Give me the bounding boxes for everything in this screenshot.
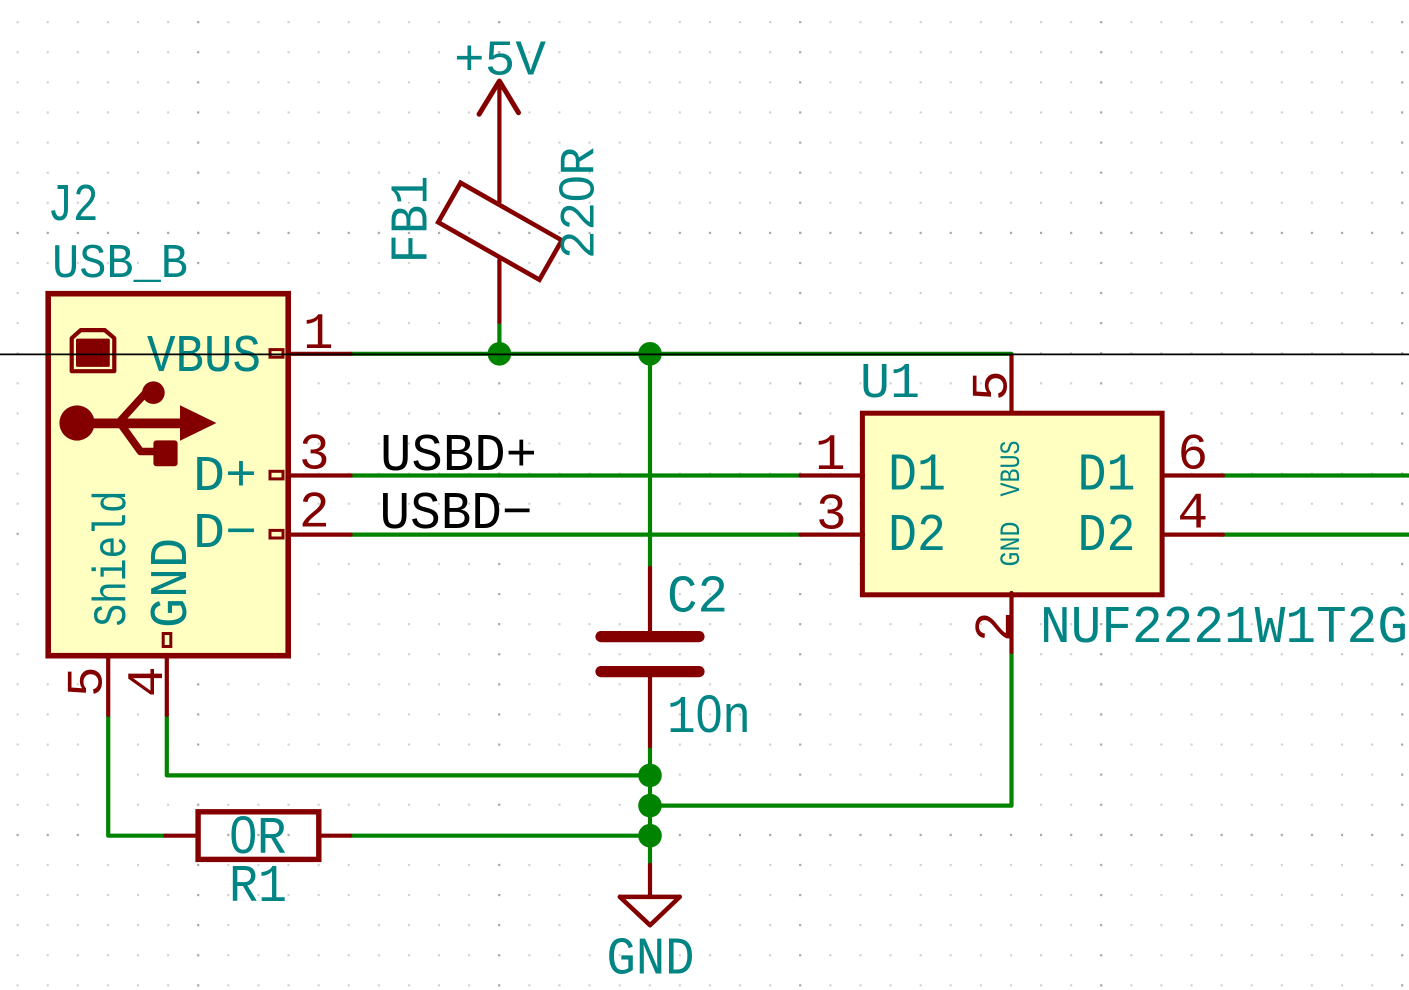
svg-text:1: 1 <box>303 307 334 364</box>
svg-text:VBUS: VBUS <box>997 441 1028 497</box>
svg-text:2: 2 <box>299 486 330 543</box>
svg-text:GND: GND <box>997 522 1028 567</box>
svg-text:USBD−: USBD− <box>380 484 533 544</box>
svg-text:C2: C2 <box>667 568 728 628</box>
svg-text:NUF2221W1T2G: NUF2221W1T2G <box>1040 598 1408 658</box>
svg-text:D−: D− <box>193 506 257 563</box>
svg-text:220R: 220R <box>551 147 609 259</box>
svg-text:GND: GND <box>607 930 695 990</box>
svg-text:D2: D2 <box>1078 506 1136 566</box>
svg-text:D+: D+ <box>193 449 257 506</box>
svg-text:D1: D1 <box>888 446 946 506</box>
svg-text:USBD+: USBD+ <box>380 426 537 486</box>
svg-text:6: 6 <box>1178 428 1209 485</box>
svg-text:VBUS: VBUS <box>147 327 261 387</box>
svg-text:2: 2 <box>969 611 1026 642</box>
svg-text:U1: U1 <box>860 356 920 413</box>
svg-text:3: 3 <box>816 487 847 544</box>
svg-text:10n: 10n <box>667 685 751 748</box>
svg-text:J2: J2 <box>48 176 99 236</box>
svg-text:USB_B: USB_B <box>52 238 188 292</box>
svg-text:1: 1 <box>815 428 846 485</box>
svg-text:FB1: FB1 <box>383 176 443 264</box>
svg-text:5: 5 <box>966 370 1023 401</box>
svg-text:3: 3 <box>299 427 330 484</box>
svg-text:5: 5 <box>61 666 118 697</box>
svg-text:R1: R1 <box>229 857 287 917</box>
svg-text:4: 4 <box>1178 487 1209 544</box>
svg-text:D1: D1 <box>1078 446 1136 506</box>
svg-text:Shield: Shield <box>87 491 139 627</box>
svg-text:D2: D2 <box>888 506 946 566</box>
svg-text:4: 4 <box>121 666 178 697</box>
svg-text:+5V: +5V <box>454 34 546 91</box>
svg-text:GND: GND <box>142 538 202 628</box>
